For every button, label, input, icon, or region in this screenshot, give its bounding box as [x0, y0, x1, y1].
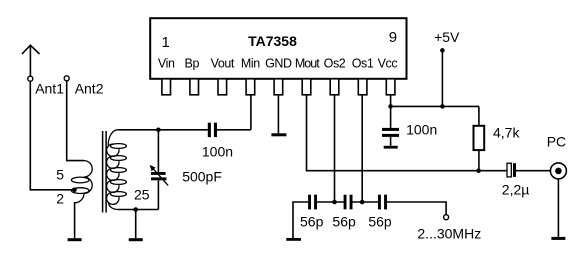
svg-text:TA7358: TA7358 [248, 33, 297, 49]
capacitor 56p (third) [378, 195, 446, 215]
label pin Mout [295, 57, 320, 71]
ground primary [68, 238, 82, 241]
junction secondary top / C500 top [156, 128, 161, 133]
antenna arrow [22, 45, 40, 76]
label IC type TA7358 [248, 33, 297, 49]
label 5 (primary turns) [56, 167, 64, 183]
svg-text:Os2: Os2 [324, 57, 346, 71]
label pin Vin [158, 57, 175, 71]
transformer T1 secondary winding [107, 130, 127, 210]
wire Ant2 to transformer primary top [67, 81, 84, 161]
label 56p second [332, 214, 356, 230]
svg-text:+5V: +5V [434, 29, 460, 45]
label Ant2 [75, 81, 104, 97]
label pin Os1 [352, 57, 374, 71]
transformer T1 core [103, 131, 107, 213]
wire Vcc pin down [390, 95, 392, 128]
terminal 2...30MHz [444, 215, 449, 220]
label 100n (decoupling) [406, 122, 437, 138]
label PC [547, 133, 566, 149]
svg-text:Vin: Vin [158, 57, 175, 71]
junction +5V rail [440, 104, 445, 109]
label 500pF [182, 168, 222, 184]
resistor 4,7k [474, 106, 485, 170]
svg-text:GND: GND [265, 57, 292, 71]
svg-text:2,2µ: 2,2µ [502, 182, 530, 198]
label 56p first [300, 214, 324, 230]
label 100n (coupling) [202, 143, 233, 159]
svg-text:PC: PC [547, 133, 566, 149]
capacitor 56p (first) [308, 195, 344, 210]
wire 56p row left to ground [293, 202, 308, 238]
variable capacitor 500pF [150, 130, 169, 210]
svg-text:1: 1 [162, 34, 170, 51]
ground GND pin [271, 133, 286, 136]
svg-text:4,7k: 4,7k [493, 125, 520, 141]
junction Os1 / 56p row [360, 200, 365, 205]
wire primary bottom to ground [74, 202, 76, 238]
wire Ant1 to transformer tap [30, 81, 73, 190]
label pin Vcc [378, 57, 398, 71]
svg-text:9: 9 [389, 29, 397, 46]
wire Os2 pin down [334, 95, 336, 202]
wire Mout pin down and right to output [307, 95, 508, 171]
wire Min pin down [250, 95, 252, 130]
pin 2 Bp stub [190, 79, 199, 95]
pin 3 Vout stub [218, 79, 227, 95]
svg-text:56p: 56p [332, 214, 356, 230]
label pin Os2 [324, 57, 346, 71]
ground 56p row [286, 238, 301, 241]
svg-text:100n: 100n [202, 143, 233, 159]
wire GND pin to ground [277, 95, 279, 134]
label 25 (secondary turns) [134, 187, 150, 203]
wire Os1 pin down [361, 95, 363, 202]
label pin GND [265, 57, 292, 71]
svg-text:Ant1: Ant1 [35, 81, 64, 97]
svg-text:5: 5 [56, 167, 64, 183]
svg-text:500pF: 500pF [182, 168, 222, 184]
label pin1 number [162, 34, 170, 51]
junction Vcc rail [388, 104, 393, 109]
pin 5 GND stub [274, 79, 283, 95]
pin 6 Mout stub [302, 79, 311, 95]
wire secondary top to junction [118, 129, 159, 131]
junction tap dot [72, 188, 77, 193]
label pin Vout [211, 57, 235, 71]
svg-text:Mout: Mout [295, 57, 320, 71]
svg-text:56p: 56p [300, 214, 324, 230]
pin 4 Min stub [246, 79, 255, 95]
label +5V [434, 29, 460, 45]
label pin Min [241, 57, 260, 71]
capacitor 56p (second) [344, 195, 378, 210]
label 2 (primary turns) [56, 191, 64, 207]
wire secondary bottom to ground [135, 210, 137, 239]
wire secondary bottom line [118, 209, 159, 211]
label Ant1 [35, 81, 64, 97]
pin 1 Vin stub [162, 79, 171, 95]
transformer T1 primary winding [71, 161, 92, 203]
pin 9 Vcc stub [386, 79, 395, 95]
svg-text:25: 25 [134, 187, 150, 203]
terminal Ant2 [64, 76, 69, 81]
pin 7 Os2 stub [330, 79, 339, 95]
IC U1 TA7358 body [150, 18, 406, 79]
label 4,7k [493, 125, 520, 141]
ground PC [551, 237, 565, 240]
junction secondary bottom [133, 207, 138, 212]
ground 100n decoupling [384, 146, 398, 149]
connector PC phono jack [550, 163, 566, 179]
supply terminal +5V [440, 48, 445, 106]
svg-text:56p: 56p [368, 214, 392, 230]
junction resistor / output line [476, 168, 481, 173]
label 56p third [368, 214, 392, 230]
wire PC to ground [557, 179, 559, 237]
svg-text:2: 2 [56, 191, 64, 207]
svg-text:Vcc: Vcc [378, 57, 398, 71]
pin 8 Os1 stub [358, 79, 367, 95]
wire Vcc rail [391, 105, 479, 107]
label 2...30MHz [417, 225, 481, 241]
svg-text:Bp: Bp [185, 57, 200, 71]
capacitor 2,2u electrolytic [507, 163, 550, 177]
svg-text:Min: Min [241, 57, 260, 71]
terminal Ant1 [28, 76, 33, 81]
svg-text:Os1: Os1 [352, 57, 374, 71]
label pin9 number [389, 29, 397, 46]
svg-text:100n: 100n [406, 122, 437, 138]
svg-text:Vout: Vout [211, 57, 235, 71]
svg-text:Ant2: Ant2 [75, 81, 104, 97]
junction Os2 / 56p row [332, 200, 337, 205]
label pin Bp [185, 57, 200, 71]
ground secondary [129, 238, 143, 241]
label 2,2u [502, 182, 530, 198]
capacitor 100n (Vcc decoupling) [382, 128, 399, 146]
svg-text:2...30MHz: 2...30MHz [417, 225, 481, 241]
capacitor 100n (coupling to Min) [158, 123, 251, 137]
